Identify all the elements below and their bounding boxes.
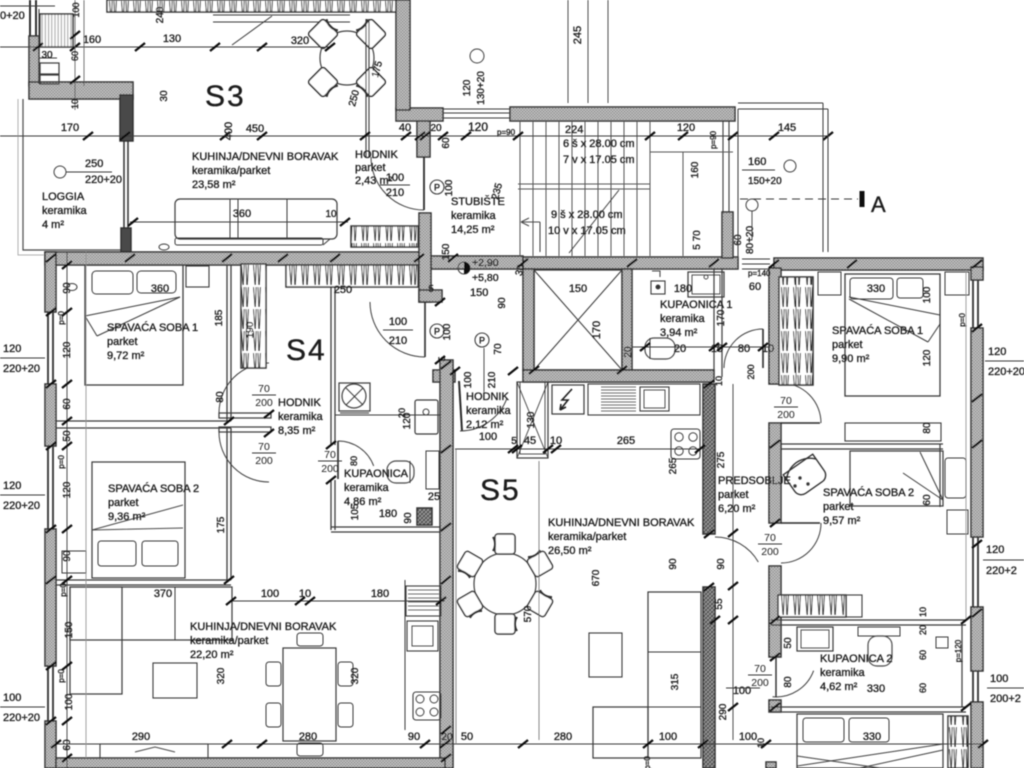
partition S3 living-hodnik (365, 19, 367, 157)
svg-text:6,20 m²: 6,20 m² (718, 503, 756, 515)
kitchen appliance box 1 (40, 63, 59, 74)
svg-text:200: 200 (746, 364, 756, 379)
cabinet under basin S4 bath (426, 451, 439, 489)
stair landing lines (649, 121, 651, 256)
left dim column (66, 252, 68, 768)
partition bath2-bedroom3 right apt (771, 706, 966, 708)
svg-text:keramika: keramika (278, 411, 324, 423)
wire bath1 east edge (713, 268, 715, 377)
svg-text:70: 70 (764, 532, 776, 544)
washbasin bath1 (688, 272, 724, 297)
svg-text:KUPAONICA: KUPAONICA (344, 468, 409, 480)
svg-text:9,72 m²: 9,72 m² (107, 350, 145, 362)
door S4 bedroom2 leaf (219, 427, 271, 432)
svg-text:200: 200 (777, 409, 795, 421)
sofa S3 front strip (175, 238, 323, 245)
svg-text:250: 250 (85, 158, 103, 170)
svg-text:parket: parket (823, 501, 854, 513)
svg-text:100: 100 (71, 2, 81, 17)
sofa S5 corner part (593, 707, 648, 758)
dresser right bedroom1 south (845, 423, 941, 441)
svg-text:185: 185 (214, 309, 225, 326)
toilet S4 bath (387, 461, 414, 483)
wall corner at bath2 (769, 700, 781, 712)
window east 1 (972, 280, 974, 328)
window east 2 (972, 537, 974, 607)
svg-text:45: 45 (524, 435, 536, 447)
window p140 in wall W2 (742, 258, 770, 260)
svg-text:130: 130 (163, 33, 181, 45)
svg-text:150: 150 (470, 287, 488, 299)
svg-text:90: 90 (716, 558, 727, 570)
svg-text:100: 100 (463, 371, 474, 388)
svg-text:570: 570 (523, 605, 534, 622)
wall east right-apt segment 1 (971, 267, 983, 280)
partition bath S4 south (331, 526, 441, 528)
svg-text:30: 30 (41, 50, 53, 61)
svg-text:220+20: 220+20 (988, 366, 1024, 378)
svg-text:170: 170 (61, 122, 79, 134)
svg-text:3,94 m²: 3,94 m² (660, 327, 698, 339)
corner sofa S4 (70, 587, 232, 640)
svg-text:HODNIK: HODNIK (278, 397, 321, 409)
svg-text:90: 90 (62, 550, 73, 562)
svg-text:S4: S4 (286, 334, 327, 367)
door PREDSOBLJE from S5 side (702, 534, 704, 587)
bed fold right bedroom1 (849, 297, 940, 342)
svg-text:400: 400 (223, 122, 235, 140)
svg-text:190: 190 (245, 321, 256, 338)
stair flight boundary right (650, 151, 733, 153)
svg-text:180: 180 (371, 588, 389, 600)
chair S3 (307, 66, 340, 99)
door S4 bedroom1 double leaf (219, 413, 271, 418)
svg-text:0+20: 0+20 (0, 10, 25, 22)
shelf bath2 (858, 627, 900, 636)
svg-text:280: 280 (554, 731, 572, 743)
svg-text:60: 60 (922, 494, 933, 506)
svg-text:210: 210 (389, 335, 407, 347)
svg-text:20: 20 (430, 123, 442, 134)
wall S3 east exterior upper (396, 0, 410, 110)
svg-text:220+20: 220+20 (3, 363, 40, 375)
svg-text:p=90: p=90 (709, 130, 718, 149)
chair S5 (456, 590, 484, 619)
svg-text:320: 320 (350, 667, 361, 684)
svg-text:120: 120 (62, 341, 73, 358)
outline top right terrace (738, 102, 823, 104)
svg-text:4 m²: 4 m² (42, 219, 64, 231)
stair tread (519, 121, 521, 256)
svg-text:70: 70 (258, 383, 270, 395)
svg-text:120: 120 (922, 349, 933, 366)
sink S5 (640, 387, 669, 411)
svg-text:100: 100 (3, 692, 21, 704)
svg-text:180: 180 (674, 283, 692, 295)
svg-text:p=0: p=0 (643, 756, 652, 768)
svg-text:200: 200 (255, 397, 273, 409)
closet S4 along wall W1 (286, 265, 418, 287)
svg-text:100: 100 (64, 693, 75, 710)
svg-text:220+2: 220+2 (986, 565, 1017, 577)
svg-text:220+20: 220+20 (85, 174, 122, 186)
fridge S4 (406, 586, 441, 616)
chair S5 (526, 589, 554, 618)
svg-text:290: 290 (132, 731, 150, 743)
dining table S4 (283, 648, 336, 741)
svg-text:100: 100 (659, 731, 677, 743)
svg-text:90: 90 (668, 558, 679, 570)
shelf line below top closet (213, 14, 350, 16)
svg-text:70: 70 (493, 343, 504, 355)
door right-apt bedroom1 (780, 384, 782, 423)
svg-text:180: 180 (379, 508, 397, 520)
nightstand right bedroom1 west (818, 272, 841, 295)
window west 2 (47, 446, 49, 529)
svg-text:70: 70 (258, 441, 270, 453)
wall S5-right apartment upper (703, 384, 715, 534)
svg-text:280: 280 (299, 731, 317, 743)
partition bedroom2-living S4 (56, 579, 231, 581)
svg-text:p=0: p=0 (57, 455, 66, 469)
closet band top of S3 (107, 0, 396, 12)
svg-text:60: 60 (70, 51, 80, 61)
svg-text:80: 80 (783, 676, 794, 688)
svg-text:SPAVAĆA SOBA 2: SPAVAĆA SOBA 2 (823, 486, 914, 499)
wall elevator west (523, 269, 534, 370)
toilet bath1 (645, 338, 675, 359)
svg-text:80+20: 80+20 (745, 226, 756, 255)
washing machine bath1 (651, 281, 665, 294)
svg-text:100: 100 (389, 316, 407, 328)
chair S3 (354, 17, 387, 50)
wall bottom right apt stub (766, 762, 776, 768)
closet column S4 (241, 264, 266, 368)
cabinet S4 (407, 621, 438, 651)
svg-text:9,36 m²: 9,36 m² (108, 511, 146, 523)
coffee table S5 (589, 633, 622, 677)
svg-text:20: 20 (397, 408, 407, 418)
wall stub S4 entry recess (419, 290, 442, 302)
stove S5 (671, 429, 700, 459)
svg-text:70: 70 (754, 663, 766, 675)
svg-text:+2,90: +2,90 (472, 257, 499, 269)
partition bedroom1-bedroom2 S4 (56, 420, 231, 422)
svg-text:keramika/parket: keramika/parket (190, 635, 268, 647)
svg-text:265: 265 (617, 435, 635, 447)
svg-text:60: 60 (918, 650, 928, 660)
svg-text:210: 210 (487, 371, 498, 388)
level marker stair (458, 262, 470, 274)
svg-text:160: 160 (83, 34, 101, 46)
partition bedroom2-hodnik S4 lower (226, 428, 228, 580)
wire P2 leader line (483, 348, 485, 392)
wall west S4 segment 3 (45, 529, 56, 666)
boiler bath2 (936, 637, 948, 648)
kitchen counter S5 (588, 384, 700, 415)
svg-text:7 v x 17.05 cm: 7 v x 17.05 cm (563, 154, 635, 166)
svg-text:14,25 m²: 14,25 m² (451, 224, 495, 236)
svg-text:100: 100 (990, 673, 1008, 685)
closet diagonal mark (232, 16, 272, 45)
radiator hatch top-left (40, 14, 73, 47)
window stairwell east double line (722, 121, 724, 212)
wall W2 under stairwell left part (431, 256, 523, 269)
wall east right-apt segment 4 (971, 702, 983, 768)
stair walk line diagonal (569, 190, 619, 253)
svg-text:20: 20 (623, 346, 634, 358)
kitchen appliance box 2 (40, 75, 59, 84)
closet right bedroom1 (779, 277, 813, 385)
small duct shaft below elevator (517, 382, 548, 458)
partition bedroom2-bath2 right apt (771, 619, 966, 621)
S4 dining dims (231, 600, 445, 602)
partition hodnik-bath S4 west upper (330, 265, 332, 445)
svg-text:670: 670 (591, 569, 602, 586)
bed S4 bedroom2 (92, 462, 185, 578)
svg-text:p=0: p=0 (59, 583, 68, 597)
svg-text:150+20: 150+20 (748, 176, 782, 187)
svg-text:HODNIK: HODNIK (466, 391, 509, 403)
washbasin S4 bath (415, 400, 438, 434)
svg-text:30: 30 (159, 90, 170, 102)
partition bedrooms-hodnik S4 upper (226, 265, 228, 421)
svg-text:parket: parket (108, 497, 139, 509)
svg-text:120: 120 (677, 122, 695, 134)
loggia balcony edge (23, 99, 125, 250)
wall stairwell west upper stub (417, 120, 430, 157)
window loggia east double line (123, 99, 125, 252)
door S5 entry (459, 381, 462, 431)
kitchen S4 counter (404, 580, 406, 730)
svg-text:120: 120 (462, 79, 473, 96)
svg-text:360: 360 (151, 283, 169, 295)
bed S4 bedroom1 (85, 265, 183, 385)
bottom dim row (56, 743, 983, 745)
svg-text:55: 55 (714, 598, 725, 610)
svg-text:p=90: p=90 (497, 128, 516, 137)
wall predsoblje-bath piece (769, 566, 781, 657)
wall W2 under stairwell (523, 257, 738, 269)
svg-text:60: 60 (62, 398, 73, 410)
svg-text:160: 160 (690, 161, 701, 178)
niche shelf line S4 bath (335, 414, 441, 416)
partition bath S4 west lower (330, 480, 332, 530)
svg-text:10: 10 (762, 343, 774, 355)
svg-text:9,57 m²: 9,57 m² (823, 515, 861, 527)
svg-text:90: 90 (62, 282, 73, 294)
door S4 entry (424, 302, 426, 357)
duct dark at S4 bath (417, 508, 432, 525)
svg-text:2,12 m²: 2,12 m² (466, 419, 504, 431)
svg-text:200: 200 (321, 463, 339, 475)
svg-text:265: 265 (668, 457, 679, 474)
svg-text:200: 200 (751, 677, 769, 689)
svg-text:50: 50 (783, 637, 794, 649)
svg-text:20: 20 (674, 343, 686, 355)
svg-text:170: 170 (591, 321, 603, 339)
svg-text:6 š x 28.00 cm: 6 š x 28.00 cm (563, 138, 635, 150)
chair S5 (525, 549, 553, 578)
svg-text:keramika: keramika (660, 313, 706, 325)
svg-text:KUPAONICA 2: KUPAONICA 2 (820, 653, 893, 665)
svg-text:keramika: keramika (451, 210, 497, 222)
svg-text:450: 450 (246, 123, 264, 135)
window west 1 (47, 312, 49, 384)
svg-text:320: 320 (291, 35, 309, 47)
bed fold S4 bedroom2 (92, 505, 183, 530)
wall S5-right apartment lower (703, 587, 715, 768)
svg-text:KUHINJA/DNEVNI BORAVAK: KUHINJA/DNEVNI BORAVAK (190, 621, 337, 633)
section marker A (860, 191, 865, 207)
svg-text:10: 10 (299, 588, 311, 600)
svg-text:245: 245 (572, 26, 584, 44)
svg-text:100: 100 (261, 588, 279, 600)
svg-text:KUHINJA/DNEVNI BORAVAK: KUHINJA/DNEVNI BORAVAK (548, 517, 695, 529)
chairs dining S4 (297, 633, 323, 646)
wall east right-apt segment 3 (971, 607, 983, 671)
svg-text:keramika: keramika (466, 405, 512, 417)
svg-text:KUHINJA/DNEVNI BORAVAK: KUHINJA/DNEVNI BORAVAK (192, 151, 339, 163)
window east 3 (972, 671, 974, 702)
svg-text:9 š x 28.00 cm: 9 š x 28.00 cm (551, 209, 623, 221)
bed right bedroom3 pillows (803, 718, 844, 742)
svg-text:150: 150 (569, 283, 587, 295)
svg-text:p=0: p=0 (57, 311, 66, 325)
wall stairwell west lower (419, 213, 431, 302)
column oval left wall (67, 284, 77, 291)
nightstand right bedroom2 (947, 510, 968, 534)
svg-text:80: 80 (922, 422, 933, 434)
svg-text:120: 120 (62, 481, 73, 498)
dining table round S5 (474, 553, 536, 615)
svg-text:KUPAONICA 1: KUPAONICA 1 (660, 299, 733, 311)
svg-text:9,90 m²: 9,90 m² (832, 353, 870, 365)
svg-text:120: 120 (468, 120, 488, 134)
wall predsoblje-bedroom1 upper (769, 268, 781, 384)
svg-text:80: 80 (215, 391, 226, 403)
svg-text:A: A (871, 192, 886, 217)
wall predsoblje lower piece (769, 423, 781, 523)
wall loggia south horizontal (29, 82, 133, 99)
svg-text:SPAVAĆA SOBA 1: SPAVAĆA SOBA 1 (832, 324, 923, 337)
svg-text:5: 5 (428, 284, 434, 295)
closet S3 hodnik (351, 226, 418, 247)
svg-text:100: 100 (442, 323, 453, 340)
door right-apt bathroom2 (773, 671, 814, 697)
sofa S5 long part (648, 592, 701, 758)
partition bedroom1-bedroom2 right apt (781, 443, 943, 445)
svg-text:keramika/parket: keramika/parket (192, 165, 270, 177)
svg-text:360: 360 (233, 208, 251, 220)
svg-text:100: 100 (922, 286, 933, 303)
window west 3 (47, 666, 49, 721)
svg-text:50: 50 (461, 731, 473, 743)
sofa dim line (130, 221, 348, 223)
nightstand right bedroom1 east (945, 272, 969, 295)
washing machine S4 (339, 383, 370, 411)
svg-text:25: 25 (428, 491, 440, 503)
svg-text:P: P (434, 327, 440, 337)
fridge lines S5 (601, 386, 636, 388)
wall stair top (510, 107, 735, 121)
chair S3 (307, 17, 340, 50)
armchair right bedroom2 (782, 452, 829, 498)
wall W3 left stub at S5 door (433, 370, 455, 382)
svg-text:S5: S5 (480, 474, 521, 507)
svg-text:370: 370 (154, 588, 172, 600)
svg-text:120: 120 (988, 346, 1006, 358)
wall west S4 segment 2 (45, 384, 56, 446)
chair S5 (455, 550, 483, 579)
bath2 east edge line (961, 625, 963, 707)
svg-text:330: 330 (863, 731, 881, 743)
junction tick marks (46, 254, 56, 262)
svg-text:10: 10 (918, 607, 928, 617)
svg-text:275: 275 (716, 451, 727, 468)
wire witness line S4 west rooms (85, 252, 87, 758)
door S4 bathroom (334, 443, 336, 480)
svg-text:keramika: keramika (820, 667, 866, 679)
sofa S3 (175, 199, 337, 239)
chair S5 (493, 534, 515, 554)
svg-text:220+20: 220+20 (3, 712, 40, 724)
svg-text:p=120: p=120 (954, 639, 963, 662)
electrical panel S5 (552, 385, 584, 414)
bed fan fold bedroom3 (797, 744, 943, 768)
svg-text:60: 60 (441, 137, 452, 149)
svg-text:100: 100 (739, 731, 757, 743)
svg-text:HODNIK: HODNIK (355, 149, 398, 161)
svg-text:+5,80: +5,80 (472, 272, 499, 284)
nightstand S4 bedroom2 (62, 551, 86, 573)
svg-text:22,20 m²: 22,20 m² (190, 649, 234, 661)
svg-text:10: 10 (756, 738, 766, 748)
svg-text:170: 170 (716, 309, 727, 326)
wall elevator-bath middle (622, 269, 632, 370)
svg-text:LOGGIA: LOGGIA (42, 191, 85, 203)
svg-text:320: 320 (216, 667, 227, 684)
svg-text:330: 330 (867, 283, 885, 295)
svg-text:p=0: p=0 (57, 669, 66, 683)
svg-text:160: 160 (748, 156, 766, 168)
svg-text:PREDSOBLJE: PREDSOBLJE (718, 475, 791, 487)
svg-text:5 70: 5 70 (692, 230, 703, 250)
stair mid landing line (518, 183, 650, 185)
svg-text:120: 120 (3, 343, 21, 355)
svg-text:80: 80 (738, 343, 750, 355)
svg-text:130: 130 (526, 411, 537, 428)
wall W3 below elevator and bath (523, 370, 714, 382)
window stair top wall (443, 108, 510, 110)
svg-text:100: 100 (386, 172, 404, 184)
svg-text:70: 70 (324, 449, 336, 461)
svg-text:240: 240 (155, 6, 166, 23)
svg-text:4,62 m²: 4,62 m² (820, 681, 858, 693)
wall west S4 segment 4 (45, 721, 56, 768)
svg-text:S3: S3 (205, 80, 246, 113)
bed fold right bedroom2 (903, 452, 943, 500)
svg-text:parket: parket (107, 336, 138, 348)
dim line predsoblje corridor (732, 384, 734, 740)
svg-text:60: 60 (918, 683, 928, 693)
svg-text:p=140: p=140 (748, 269, 771, 278)
svg-text:290: 290 (718, 703, 729, 720)
elevator X cross (534, 270, 622, 370)
svg-text:150: 150 (64, 621, 75, 638)
top-left vertical dim chain (74, 0, 76, 110)
chair S3 (354, 66, 387, 99)
